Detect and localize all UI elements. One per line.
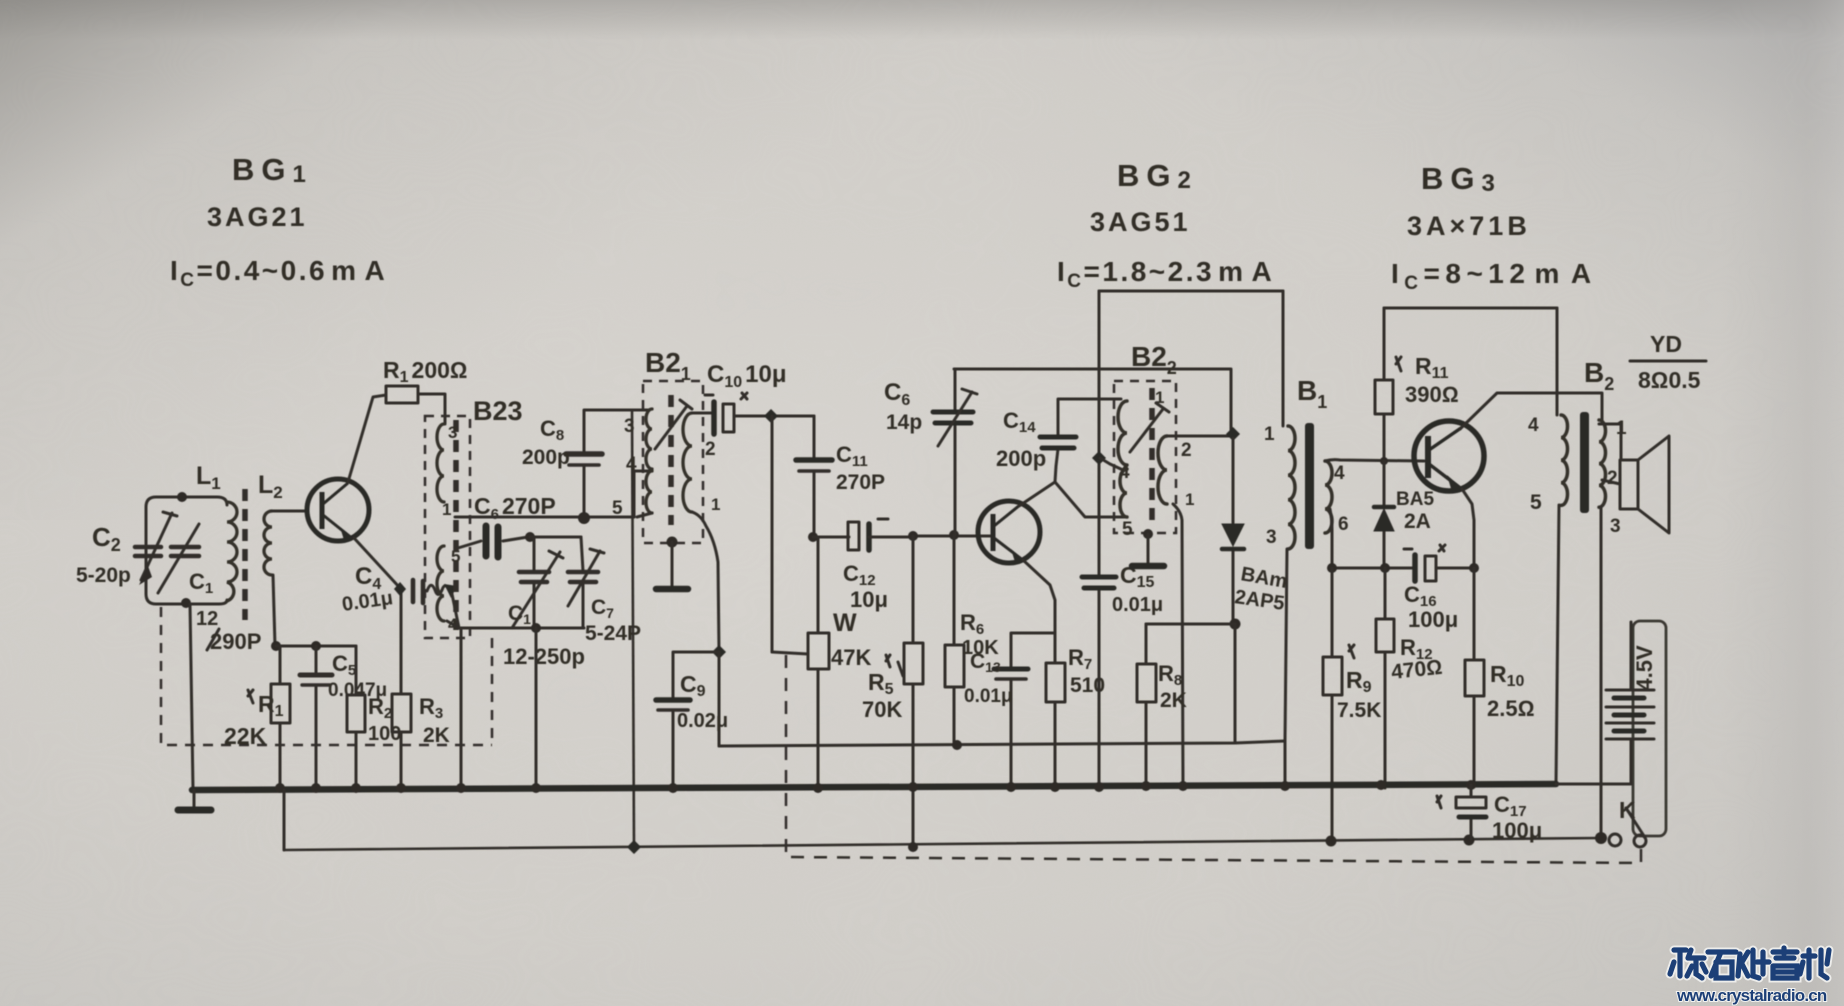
svg-text:2: 2	[705, 439, 716, 460]
svg-text:0.02μ: 0.02μ	[677, 710, 728, 732]
bus junction dots	[275, 780, 1476, 793]
IF transformer B23 dashed box	[425, 416, 470, 638]
lower rail of tuned circuit	[459, 627, 584, 630]
resistor R12 470ohm	[1376, 568, 1443, 788]
wire R1 to B23 pin3	[418, 394, 445, 424]
dashed shield box around input stage	[161, 607, 492, 745]
speaker YD	[1599, 424, 1669, 533]
svg-text:3A×71B: 3A×71B	[1407, 211, 1531, 241]
battery 4.5V box	[1633, 621, 1666, 836]
wire node to C5 node	[276, 645, 356, 648]
BG3 supply loop	[1384, 307, 1557, 310]
svg-text:BA5: BA5	[1396, 489, 1434, 510]
capacitor C11 270p	[796, 416, 885, 537]
label C6 270p	[474, 493, 556, 523]
svg-text:12-250p: 12-250p	[503, 644, 585, 669]
B23 primary winding pins 3-1	[437, 423, 457, 519]
B23 secondary winding pins 5-4	[437, 546, 460, 634]
capacitor C14 200p	[996, 399, 1121, 482]
B2-2 core	[1149, 388, 1155, 527]
node R5 return	[908, 842, 918, 852]
ground below B2-1	[656, 542, 688, 589]
wire diode node down to AGC return	[1234, 624, 1237, 743]
node C17 return	[1464, 835, 1475, 846]
wire B2-1 secondary top to C10	[692, 412, 714, 415]
pin 5 label B2-1	[612, 498, 623, 519]
transistor BG1 stage label	[170, 152, 387, 291]
svg-text:B23: B23	[473, 396, 523, 426]
svg-text:3: 3	[1610, 516, 1621, 537]
B2-1 tuning arrow	[655, 400, 692, 449]
svg-text:C1010μ: C1010μ	[707, 361, 787, 391]
node B : tank bottom junction	[181, 598, 191, 608]
B2-2 secondary winding pin2	[1158, 436, 1194, 509]
node R9 top	[1327, 563, 1337, 573]
node R9 return	[1326, 836, 1337, 847]
B1 primary winding pins 1-3	[1264, 424, 1295, 549]
wire BG1 emitter to C4 node	[354, 538, 400, 588]
watermark crystalradio.cn	[1670, 948, 1829, 1005]
node C6 output	[525, 532, 535, 542]
output transformer B2 label	[1584, 331, 1706, 394]
resistor R3 2K	[392, 592, 450, 789]
magnetic core between L1 and L2	[242, 489, 248, 620]
node C5 junction	[311, 641, 321, 651]
AGC return wire	[719, 741, 1285, 746]
IF transformer B2-2 dashed box	[1114, 381, 1176, 533]
electrolytic C17 100u	[1437, 785, 1542, 843]
resistor R11 390ohm	[1375, 308, 1459, 461]
wire BG2 emitter down	[1023, 560, 1055, 663]
capacitor C5 0.047u	[300, 646, 387, 789]
capacitor C9 0.02u	[656, 652, 728, 789]
B2-2 primary lower section pin4 pin5	[1119, 462, 1133, 540]
resistor R2 100	[347, 646, 401, 789]
resistor R1 200ohm	[383, 357, 468, 403]
ground bus	[192, 784, 1556, 790]
svg-text:1: 1	[711, 495, 720, 514]
wire B2-2 secondary bottom to bus	[1173, 504, 1183, 788]
resistor R9 7.5K	[1323, 568, 1381, 841]
wire B1 secondary bottom down	[1330, 509, 1332, 568]
B2-1 primary upper section pin3	[624, 409, 652, 469]
B2 core	[1580, 412, 1589, 513]
B2 secondary winding pins 1-2-3	[1599, 418, 1627, 537]
B1 secondary winding pins 4-6	[1325, 461, 1349, 535]
wire AGC corner down to bus	[1284, 741, 1287, 788]
node C9	[712, 645, 726, 659]
svg-text:0.01μ: 0.01μ	[964, 686, 1013, 707]
ground below B2-2	[1132, 534, 1164, 566]
B2-1 secondary winding	[683, 413, 720, 514]
svg-text:10μ: 10μ	[850, 587, 888, 612]
svg-text:3: 3	[624, 416, 635, 437]
padder capacitor C6 14p	[884, 369, 977, 535]
BG2 collector supply loop	[1099, 291, 1283, 576]
svg-text:5: 5	[1122, 519, 1133, 540]
wire rail to ground bus	[460, 628, 463, 789]
wire node down to volume wiper	[771, 416, 774, 652]
battery return wire	[284, 838, 1601, 850]
node A : tank top junction	[177, 492, 187, 502]
svg-text:100: 100	[368, 723, 401, 745]
svg-text:390Ω: 390Ω	[1405, 382, 1459, 407]
svg-text:8Ω0.5: 8Ω0.5	[1638, 367, 1701, 393]
svg-text:2.5Ω: 2.5Ω	[1487, 696, 1534, 721]
oscillator top wire	[954, 369, 1231, 434]
node R5 top	[908, 531, 918, 541]
transistor BG2 stage label	[1057, 158, 1274, 292]
node speaker return	[1595, 832, 1607, 844]
node L2-R1 junction	[271, 641, 281, 651]
wire BG3 collector to output transformer	[1460, 393, 1602, 429]
feedback line from C8 wire down to lower return	[632, 410, 634, 847]
svg-text:4: 4	[1334, 463, 1345, 484]
B2-2 label	[1131, 341, 1177, 378]
node C1 bottom	[531, 623, 541, 633]
node feedback on return	[627, 840, 641, 854]
svg-text:200p: 200p	[996, 446, 1046, 471]
B2-1 label	[645, 347, 691, 384]
battery cells	[1556, 622, 1654, 784]
svg-text:12: 12	[196, 608, 218, 630]
svg-text:W: W	[833, 609, 857, 637]
svg-text:4: 4	[626, 454, 637, 475]
svg-text:www.crystalradio.cn: www.crystalradio.cn	[1676, 986, 1827, 1005]
tuned circuit top wire	[530, 536, 581, 539]
resistor R1 22K (base bias)	[224, 646, 290, 789]
svg-text:290P: 290P	[210, 629, 261, 654]
svg-text:5: 5	[612, 498, 623, 519]
antenna coil L1 / tank box	[146, 462, 237, 604]
svg-text:4: 4	[1119, 462, 1130, 483]
svg-text:0.01μ: 0.01μ	[1112, 594, 1163, 616]
electrolytic C16 100u	[1404, 545, 1458, 632]
node B2-2 tap feed	[1092, 451, 1106, 465]
wire B2 secondary bottom to switch	[1600, 507, 1603, 838]
svg-text:200p: 200p	[522, 446, 570, 469]
wire L2 bottom down	[273, 575, 275, 646]
svg-text:4: 4	[1528, 415, 1539, 436]
transistor BG1	[307, 479, 369, 541]
svg-text:2: 2	[1181, 440, 1192, 461]
svg-text:IC=1.8~2.3mA: IC=1.8~2.3mA	[1057, 256, 1274, 292]
svg-text:5: 5	[1530, 491, 1542, 514]
wire tank bottom to ground bus	[190, 604, 193, 789]
driver transformer B1 label	[1297, 375, 1327, 412]
wire BG3 emitter down	[1462, 489, 1474, 568]
coupling coil L2	[258, 471, 283, 575]
wire collector node to B2-2 pin5	[1055, 482, 1127, 517]
wire B23 pin4 to lower rail	[447, 621, 459, 628]
transistor BG2	[978, 501, 1040, 563]
B2 primary winding pins 4-5	[1528, 415, 1567, 514]
variable capacitor C2 5-20p	[76, 512, 177, 587]
svg-text:5: 5	[451, 547, 460, 566]
svg-text:R1200Ω: R1200Ω	[383, 357, 468, 386]
wire B1 primary bottom down	[1285, 549, 1287, 741]
wire C12 to BG2 base	[913, 535, 994, 538]
wire loop corner down to B2 primary	[1556, 308, 1559, 415]
wire BG2 collector to C14 node	[1019, 482, 1055, 506]
B2-1 core ground node	[667, 537, 678, 548]
svg-text:7.5K: 7.5K	[1337, 699, 1381, 722]
svg-text:14p: 14p	[886, 411, 922, 434]
svg-text:3AG21: 3AG21	[207, 202, 308, 232]
B1 core	[1305, 423, 1314, 549]
svg-text:270P: 270P	[836, 471, 885, 494]
svg-text:2A: 2A	[1404, 510, 1431, 533]
ground symbol left	[178, 790, 211, 810]
resistor R8 2K	[1137, 624, 1187, 789]
transistor BG3	[1414, 421, 1484, 492]
IF transformer B2-1 dashed box	[643, 381, 703, 543]
B2-2 ground node	[1143, 529, 1153, 539]
node diode bottom	[1230, 619, 1241, 630]
svg-text:3: 3	[1266, 527, 1277, 548]
node R11 base junction	[1380, 457, 1388, 465]
resistor R10 2.5ohm	[1465, 568, 1534, 787]
svg-text:70K: 70K	[862, 697, 902, 722]
transistor BG3 stage label	[1391, 161, 1597, 294]
node detector top	[1226, 427, 1240, 441]
svg-text:6: 6	[1338, 514, 1349, 535]
wire B1 secondary top to BG3 base	[1325, 460, 1424, 461]
wire B2-1 sec bottom to C9 node	[692, 512, 719, 652]
svg-text:YD: YD	[1650, 331, 1682, 357]
volume potentiometer W 47K	[808, 537, 890, 789]
svg-text:100μ: 100μ	[1492, 818, 1542, 843]
AGC dashed line from wiper	[786, 655, 1641, 863]
svg-text:1: 1	[1185, 490, 1194, 509]
svg-text:2K: 2K	[423, 724, 450, 747]
svg-text:5-20p: 5-20p	[76, 564, 131, 587]
wire C10 to C11	[734, 415, 814, 418]
svg-text:1: 1	[1264, 424, 1275, 445]
wire loop right down to B1 primary	[1282, 291, 1285, 426]
svg-text:3AG51: 3AG51	[1090, 207, 1191, 237]
svg-text:22K: 22K	[224, 723, 267, 749]
B23 core	[453, 420, 459, 630]
svg-text:100μ: 100μ	[1408, 607, 1458, 632]
svg-text:47K: 47K	[831, 645, 871, 670]
capacitor C15 0.01u	[1082, 562, 1163, 789]
B2-2 pin1 mark	[1155, 388, 1164, 407]
node C6b top	[949, 530, 959, 540]
svg-text:IC=0.4~0.6mA: IC=0.4~0.6mA	[170, 255, 387, 291]
node C11 bottom	[808, 532, 818, 542]
switch K	[1609, 797, 1646, 847]
wire node to B2-2 tap4	[1100, 458, 1123, 470]
node emitter top	[1469, 563, 1479, 573]
svg-text:4.5V: 4.5V	[1632, 645, 1657, 691]
wire B2-2 secondary top to detector node	[1167, 435, 1233, 438]
node R6 bottom	[952, 740, 962, 750]
electrolytic C12 10u	[843, 519, 913, 612]
electrolytic C10 10u	[705, 361, 787, 434]
resistor R7 510	[1046, 645, 1105, 789]
resistor R5 70K	[862, 536, 923, 847]
wire C11 to C12	[813, 536, 849, 539]
trimmer capacitor C1 290p	[158, 524, 261, 654]
battery 4.5V label	[1632, 645, 1657, 691]
trimmer capacitor C7 5-24p	[568, 537, 641, 645]
wire emitter node row	[1332, 567, 1474, 570]
capacitor C13 0.01u	[964, 633, 1055, 789]
wire 270p line up to B2-1 tap4	[634, 471, 652, 517]
wire B2 primary bottom to bus corner	[1556, 505, 1559, 784]
node C8 bottom on 270p line	[578, 512, 590, 524]
wiper wire to W	[772, 652, 808, 654]
wire L2 top to BG1 base	[272, 510, 307, 513]
svg-text:2K: 2K	[1160, 689, 1187, 712]
svg-text:2: 2	[1607, 468, 1618, 489]
wire node to AGC return	[718, 652, 721, 746]
node volume feed	[764, 409, 778, 423]
capacitor C4 0.01u	[341, 563, 459, 628]
wire diode node to R8	[1146, 623, 1235, 626]
B2-1 primary lower section pin4 tap	[626, 454, 652, 517]
wire B23 to B2-1 270p line	[455, 516, 634, 519]
resistor R6 10K	[945, 535, 999, 746]
variable capacitor C1 12-250p	[503, 537, 585, 669]
B2-1 core	[668, 395, 674, 525]
capacitor C8 200p	[522, 410, 648, 519]
B23 label	[473, 396, 523, 426]
svg-text:1: 1	[442, 500, 451, 519]
wire C1 bottom to ground bus	[535, 628, 538, 789]
svg-text:3: 3	[448, 423, 457, 442]
series capacitor C6	[458, 526, 528, 557]
B2-2 tuning arrow	[1130, 403, 1169, 452]
B2-2 primary upper section	[1118, 401, 1127, 465]
wire BG1 collector to R1	[348, 395, 386, 482]
node R12 top	[1380, 563, 1390, 573]
detector diode BAm 2AP5	[1222, 438, 1289, 624]
bias diode BA5 2A	[1374, 461, 1434, 568]
wire bus corner to return	[283, 790, 286, 850]
